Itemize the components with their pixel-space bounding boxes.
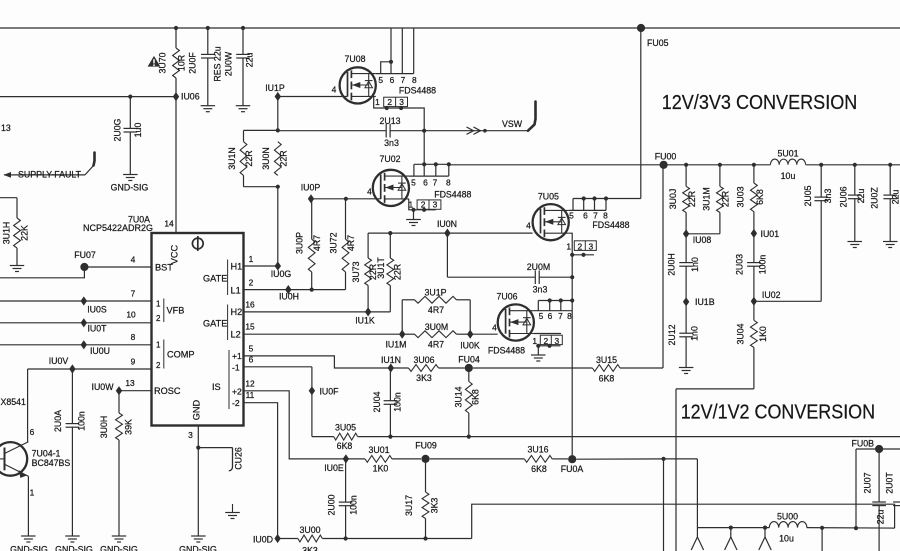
svg-text:22u: 22u xyxy=(891,190,900,205)
svg-text:3n3: 3n3 xyxy=(384,138,399,148)
node IU0V xyxy=(49,356,76,374)
transistor 7U02 xyxy=(373,154,472,206)
svg-text:GATE: GATE xyxy=(203,319,227,329)
ground GND-SIG xyxy=(111,175,149,193)
resistor 3U1N xyxy=(227,130,254,186)
wire xyxy=(368,232,447,234)
junction xyxy=(684,163,688,167)
svg-text:6: 6 xyxy=(30,427,35,437)
wire xyxy=(381,62,391,74)
svg-text:4: 4 xyxy=(492,323,497,333)
wire xyxy=(697,537,703,550)
svg-text:12: 12 xyxy=(245,379,255,389)
wire xyxy=(311,198,346,200)
wire xyxy=(696,459,698,528)
junction xyxy=(174,26,178,30)
svg-text:IU1K: IU1K xyxy=(355,316,375,326)
pin number 8 xyxy=(567,311,572,321)
wire xyxy=(594,199,596,211)
wire xyxy=(311,367,313,437)
wire xyxy=(731,537,737,550)
svg-text:3U0J: 3U0J xyxy=(668,189,678,210)
svg-text:13: 13 xyxy=(125,378,135,388)
svg-text:5: 5 xyxy=(378,75,383,85)
junction xyxy=(604,196,608,200)
wire xyxy=(322,538,471,540)
svg-text:6: 6 xyxy=(390,75,395,85)
wire drain bar xyxy=(376,73,414,75)
svg-text:2U04: 2U04 xyxy=(372,391,382,412)
wire xyxy=(244,265,278,267)
wire xyxy=(0,300,152,302)
capacitor 2U0A xyxy=(53,410,87,536)
pin number 5 xyxy=(569,210,574,220)
wire xyxy=(662,165,664,368)
junction xyxy=(559,298,563,302)
wire xyxy=(413,210,415,220)
svg-text:3U1P: 3U1P xyxy=(424,287,446,297)
svg-text:2U07: 2U07 xyxy=(863,472,873,493)
junction xyxy=(310,288,314,292)
svg-text:2U03: 2U03 xyxy=(734,254,744,275)
svg-text:2U0Z: 2U0Z xyxy=(870,187,880,209)
pin number 16 xyxy=(245,300,255,310)
svg-text:8: 8 xyxy=(446,177,451,187)
svg-text:10: 10 xyxy=(126,310,136,320)
op-amp U 7U0A NCP5422ADR2G xyxy=(83,215,244,426)
wire xyxy=(423,131,425,165)
svg-text:7U04-1: 7U04-1 xyxy=(32,449,61,459)
junction xyxy=(399,106,403,110)
svg-text:6: 6 xyxy=(249,355,254,365)
resistor 3U70 xyxy=(158,28,198,94)
svg-text:22R: 22R xyxy=(393,264,403,280)
wire xyxy=(552,458,568,460)
node IU1K xyxy=(355,307,375,325)
pins 1 2 3 of 7U05 xyxy=(566,241,596,252)
wire xyxy=(374,96,425,130)
wire xyxy=(414,163,449,165)
svg-text:2U0H: 2U0H xyxy=(667,253,677,276)
wire xyxy=(569,233,572,255)
junction xyxy=(422,208,426,212)
svg-text:2U0F: 2U0F xyxy=(188,52,198,74)
svg-text:3U73: 3U73 xyxy=(351,261,361,282)
wire xyxy=(472,504,895,538)
resistor 3U1H xyxy=(2,198,30,266)
svg-text:X8541: X8541 xyxy=(1,397,27,407)
svg-text:NCP5422ADR2G: NCP5422ADR2G xyxy=(83,223,153,233)
wire xyxy=(807,527,895,530)
svg-text:IU02: IU02 xyxy=(762,290,781,300)
junction xyxy=(241,26,245,30)
svg-text:3K3: 3K3 xyxy=(416,373,432,383)
svg-text:3K3: 3K3 xyxy=(302,546,318,551)
node IU0N xyxy=(437,219,457,238)
wire xyxy=(571,255,573,277)
svg-text:IU0D: IU0D xyxy=(253,535,273,545)
wire xyxy=(447,276,535,278)
svg-text:7: 7 xyxy=(433,177,438,187)
title 12V/3V3 xyxy=(662,91,858,114)
resistor 3U0P xyxy=(295,232,323,290)
wire xyxy=(244,129,278,131)
jumper CU26 xyxy=(198,447,243,512)
resistor 3U0J xyxy=(668,165,697,234)
node IU0D xyxy=(253,534,281,545)
svg-text:1n0: 1n0 xyxy=(690,257,700,272)
junction xyxy=(853,163,857,167)
pin number 7 xyxy=(131,289,136,299)
svg-text:GND-SIG: GND-SIG xyxy=(100,545,138,551)
svg-text:1: 1 xyxy=(249,254,254,264)
wire xyxy=(27,369,29,442)
wire xyxy=(806,164,900,166)
svg-text:11: 11 xyxy=(246,390,255,400)
wire xyxy=(572,199,574,211)
svg-text:7U06: 7U06 xyxy=(496,292,517,302)
wire xyxy=(449,164,771,166)
wire xyxy=(413,28,415,74)
svg-text:3U70: 3U70 xyxy=(158,52,168,73)
pin number 1 xyxy=(249,254,254,264)
wire xyxy=(560,301,562,311)
wire xyxy=(664,458,698,460)
wire xyxy=(175,97,177,233)
pin number 6 xyxy=(548,311,553,321)
resistor 3U0N xyxy=(261,142,289,176)
svg-text:FU05: FU05 xyxy=(647,38,669,48)
svg-text:10R: 10R xyxy=(177,55,187,71)
junction xyxy=(661,457,665,461)
ground GND-SIG xyxy=(100,536,138,551)
node IU1P xyxy=(265,83,285,101)
svg-text:H2: H2 xyxy=(231,307,243,317)
svg-text:5: 5 xyxy=(539,311,544,321)
node IU06 xyxy=(173,92,200,102)
svg-text:7: 7 xyxy=(131,289,136,299)
node FU04 xyxy=(458,354,480,372)
junction xyxy=(854,526,858,530)
junction xyxy=(411,208,415,212)
wire xyxy=(244,391,346,459)
svg-text:VCC: VCC xyxy=(170,244,180,264)
node IU0T xyxy=(81,318,108,333)
svg-text:22u: 22u xyxy=(245,53,255,68)
svg-text:6K8: 6K8 xyxy=(337,441,353,451)
wire xyxy=(430,458,525,460)
node FU05 xyxy=(637,24,669,48)
svg-text:FDS4488: FDS4488 xyxy=(592,220,629,230)
ground xyxy=(679,368,694,374)
svg-text:3n3: 3n3 xyxy=(823,189,833,204)
wire xyxy=(571,301,573,460)
svg-text:6K8: 6K8 xyxy=(755,189,765,205)
wire xyxy=(0,322,152,324)
svg-text:IU0W: IU0W xyxy=(92,382,115,392)
wire xyxy=(0,197,17,199)
wire xyxy=(84,266,151,268)
svg-text:6K8: 6K8 xyxy=(599,374,615,384)
pin number 7 xyxy=(558,311,563,321)
junction xyxy=(582,196,586,200)
svg-text:5: 5 xyxy=(249,344,254,354)
junction xyxy=(547,344,551,348)
svg-text:RES 22u: RES 22u xyxy=(213,46,223,81)
pin number 6 xyxy=(423,177,428,187)
svg-text:2: 2 xyxy=(543,336,548,346)
ground xyxy=(201,106,216,112)
svg-text:10u: 10u xyxy=(781,171,796,181)
svg-text:16: 16 xyxy=(245,300,255,310)
node FU00 xyxy=(655,151,677,169)
svg-text:100n: 100n xyxy=(77,411,87,431)
junction xyxy=(536,344,540,348)
resistor 3U1M xyxy=(702,165,731,234)
svg-text:FU0B: FU0B xyxy=(852,439,875,449)
capacitor 2U06 xyxy=(838,165,866,242)
wire drain bar xyxy=(534,310,572,312)
svg-text:5U00: 5U00 xyxy=(777,511,798,521)
svg-text:3U00: 3U00 xyxy=(299,525,320,535)
svg-text:2U0M: 2U0M xyxy=(527,262,550,272)
svg-text:1: 1 xyxy=(532,336,537,346)
wire xyxy=(572,254,594,256)
ic label X8541 xyxy=(1,397,27,407)
pin number 7 xyxy=(593,210,598,220)
svg-text:3U0N: 3U0N xyxy=(261,147,271,170)
node IU01 xyxy=(751,229,779,239)
svg-text:1: 1 xyxy=(566,242,571,252)
transistor 7U05 xyxy=(533,191,630,240)
resistor 3U00 xyxy=(278,525,323,551)
svg-text:4: 4 xyxy=(526,221,531,231)
capacitor 2U12 xyxy=(667,302,700,368)
svg-text:9: 9 xyxy=(131,357,136,367)
wire xyxy=(390,28,392,74)
svg-text:15: 15 xyxy=(245,322,255,332)
wire xyxy=(244,186,278,188)
wire xyxy=(277,187,279,266)
node FU09 xyxy=(415,441,437,464)
wire xyxy=(620,367,663,369)
wire xyxy=(539,276,572,278)
svg-text:7U05: 7U05 xyxy=(538,191,559,201)
wire drain bar xyxy=(409,175,449,177)
svg-text:3U03: 3U03 xyxy=(736,186,746,207)
wire xyxy=(244,333,403,335)
wire xyxy=(197,448,199,536)
wire xyxy=(725,528,731,550)
resistor 3U14 xyxy=(454,368,481,437)
inductor 5U00 xyxy=(769,511,807,543)
svg-text:IU06: IU06 xyxy=(181,92,200,102)
svg-text:4: 4 xyxy=(131,255,136,265)
svg-text:FU00: FU00 xyxy=(655,151,677,161)
junction xyxy=(581,253,585,257)
svg-text:22R: 22R xyxy=(279,150,289,166)
resistor 3U04 xyxy=(736,301,769,389)
wire xyxy=(413,164,415,176)
node IU0U xyxy=(81,340,110,356)
wire xyxy=(691,528,697,550)
wire xyxy=(821,528,823,551)
svg-text:22R: 22R xyxy=(687,191,697,207)
svg-text:IU0N: IU0N xyxy=(437,219,457,229)
pin number 5 xyxy=(378,75,383,85)
node IU02 xyxy=(751,290,781,306)
junction xyxy=(763,526,767,530)
junction xyxy=(752,163,756,167)
svg-text:2U00: 2U00 xyxy=(327,494,337,515)
node IU0E xyxy=(324,454,349,473)
svg-text:6: 6 xyxy=(423,177,428,187)
capacitor 2U05 xyxy=(803,165,833,207)
node IU1N xyxy=(381,355,401,373)
pin number 10 xyxy=(126,310,136,320)
svg-text:IU0F: IU0F xyxy=(319,387,339,397)
svg-text:3U72: 3U72 xyxy=(328,232,338,253)
capacitor 2U04 xyxy=(372,368,403,437)
capacitor 2U0Z xyxy=(870,165,900,242)
wire xyxy=(423,164,425,176)
wire xyxy=(277,97,279,131)
pin number 9 xyxy=(131,357,136,367)
resistor 3U73 xyxy=(351,233,378,312)
svg-text:1K0: 1K0 xyxy=(758,326,768,342)
wire xyxy=(244,289,289,291)
wire xyxy=(537,346,539,355)
net VSW xyxy=(424,102,535,135)
resistor 3U03 xyxy=(736,165,765,234)
svg-text:39K: 39K xyxy=(124,419,134,435)
svg-text:5U01: 5U01 xyxy=(777,149,798,159)
svg-text:ROSC: ROSC xyxy=(154,386,181,396)
svg-text:3K3: 3K3 xyxy=(430,498,440,514)
svg-text:4: 4 xyxy=(332,85,337,95)
svg-text:BC847BS: BC847BS xyxy=(32,458,71,468)
svg-text:7: 7 xyxy=(401,75,406,85)
wire xyxy=(346,198,381,200)
svg-text:COMP: COMP xyxy=(167,350,195,360)
wire xyxy=(759,528,765,550)
svg-text:8: 8 xyxy=(567,311,572,321)
resistor 3U01 xyxy=(346,445,421,474)
wire xyxy=(697,527,769,529)
svg-text:L2: L2 xyxy=(231,330,241,340)
wire xyxy=(754,300,821,302)
svg-text:3U06: 3U06 xyxy=(413,355,434,365)
wire drain bar xyxy=(569,209,606,211)
svg-text:IU0S: IU0S xyxy=(87,305,107,315)
svg-text:BST: BST xyxy=(155,263,173,273)
pin number 4 xyxy=(131,255,136,265)
ground GND-SIG xyxy=(55,536,93,551)
node FU07 xyxy=(74,250,96,271)
capacitor 2U03 xyxy=(734,233,767,301)
svg-text:22u: 22u xyxy=(876,510,886,525)
svg-text:3U17: 3U17 xyxy=(404,495,414,516)
svg-text:14: 14 xyxy=(164,219,174,229)
inductor 5U01 xyxy=(770,149,805,181)
pin number 4 xyxy=(492,323,497,333)
svg-text:IU0K: IU0K xyxy=(460,341,480,351)
wire xyxy=(435,164,437,176)
pin number 5 xyxy=(249,344,254,354)
wire xyxy=(675,389,677,551)
svg-text:2U13: 2U13 xyxy=(379,116,400,126)
svg-text:3: 3 xyxy=(588,242,593,252)
resistor 3U06 xyxy=(391,355,465,383)
wire xyxy=(0,267,84,278)
junction xyxy=(570,253,574,257)
net SUPPLY-FAULT xyxy=(4,153,95,180)
wire xyxy=(583,199,585,211)
wire xyxy=(765,537,771,550)
title 12V/1V2 xyxy=(681,400,875,423)
wire xyxy=(640,28,642,199)
pin number 7 xyxy=(401,75,406,85)
svg-text:12V/1V2 CONVERSION: 12V/1V2 CONVERSION xyxy=(681,400,875,423)
capacitor 2U13 xyxy=(379,116,400,148)
transistor 7U08 xyxy=(340,54,437,104)
wire xyxy=(278,130,386,132)
junction xyxy=(820,526,824,530)
net label 13 xyxy=(1,123,11,133)
ground xyxy=(883,242,898,248)
svg-text:100n: 100n xyxy=(349,495,359,515)
svg-text:13: 13 xyxy=(1,123,11,133)
svg-text:6K8: 6K8 xyxy=(531,464,547,474)
svg-text:2: 2 xyxy=(156,361,161,370)
ground xyxy=(406,220,421,226)
node IU0W xyxy=(92,382,123,395)
wire xyxy=(820,201,822,302)
svg-text:IU0V: IU0V xyxy=(49,356,69,366)
svg-text:IU0E: IU0E xyxy=(324,463,344,473)
wire xyxy=(537,301,539,311)
svg-text:2U0T: 2U0T xyxy=(885,472,895,494)
svg-text:1n0: 1n0 xyxy=(689,326,699,341)
pins 1 2 3 of 7U08 xyxy=(375,97,407,107)
node IU0P xyxy=(301,183,321,204)
junction xyxy=(718,163,722,167)
resistor 3U16 xyxy=(524,445,552,475)
svg-text:3: 3 xyxy=(433,200,438,210)
svg-text:GND-SIG: GND-SIG xyxy=(10,545,48,551)
pin number 3 xyxy=(188,430,193,440)
svg-text:22K: 22K xyxy=(20,225,30,241)
svg-text:-1: -1 xyxy=(232,362,240,372)
ground GND-SIG xyxy=(10,536,48,551)
capacitor 2U0T xyxy=(885,472,900,506)
wire xyxy=(358,436,900,438)
svg-text:IU08: IU08 xyxy=(693,235,712,245)
svg-text:IU01: IU01 xyxy=(761,229,780,239)
node IU08 xyxy=(683,229,711,245)
wire xyxy=(663,459,665,551)
svg-text:L1: L1 xyxy=(231,286,241,296)
svg-text:3U0M: 3U0M xyxy=(425,322,448,332)
resistor 3U72 xyxy=(328,232,355,289)
svg-text:3U05: 3U05 xyxy=(335,423,356,433)
svg-text:10u: 10u xyxy=(779,533,794,543)
wire xyxy=(856,448,900,450)
pin number 6 xyxy=(583,210,588,220)
wire xyxy=(0,344,152,346)
wire xyxy=(538,300,572,302)
wire xyxy=(288,289,345,291)
